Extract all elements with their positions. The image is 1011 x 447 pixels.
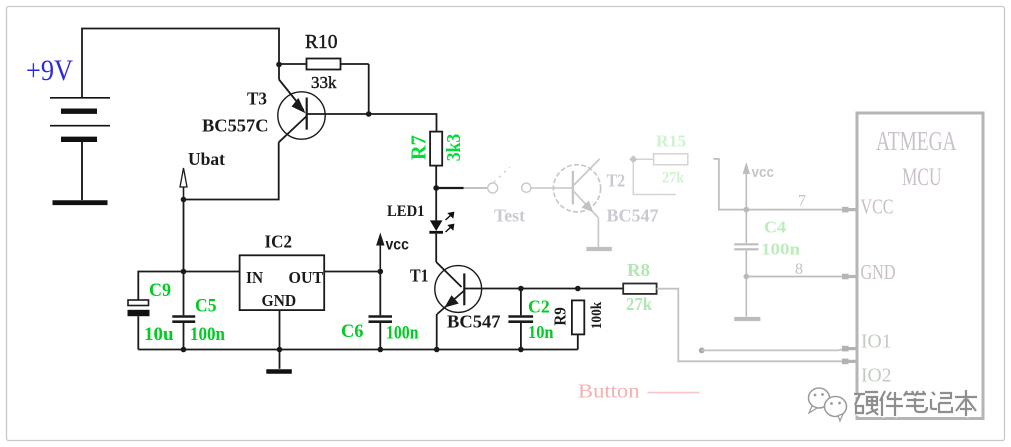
svg-text:T1: T1 xyxy=(410,266,429,286)
resistor R8 27k xyxy=(623,284,656,294)
node R9 top xyxy=(575,286,581,292)
svg-text:BC547: BC547 xyxy=(447,312,501,332)
svg-text:IO2: IO2 xyxy=(861,366,892,387)
pin arrow GND xyxy=(842,274,857,280)
LED1 light arrows xyxy=(446,213,454,233)
node Ubat junction xyxy=(181,197,187,203)
wire IC2 GND stem xyxy=(279,310,281,369)
svg-text:VCC: VCC xyxy=(861,195,894,219)
node C2 top xyxy=(518,286,524,292)
LED LED1 xyxy=(429,188,443,262)
svg-text:Button: Button xyxy=(578,381,640,403)
node C5 gnd xyxy=(181,347,187,353)
node: +9V / R10 junction xyxy=(276,62,282,68)
svg-text:BC557C: BC557C xyxy=(202,116,269,136)
wire IO1 stub (faded) xyxy=(699,348,846,354)
capacitor C4 100n (faded) xyxy=(734,210,758,317)
T2 emitter arrow xyxy=(582,201,594,213)
switch S Test (faded) xyxy=(488,167,531,193)
svg-text:Test: Test xyxy=(494,206,525,226)
watermark text 硬件笔记本 (drawn strokes) xyxy=(856,392,979,418)
svg-text:33k: 33k xyxy=(311,73,337,92)
watermark logo bubbles xyxy=(809,388,847,421)
resistor R9 100k xyxy=(572,300,584,349)
svg-text:7: 7 xyxy=(798,193,806,210)
capacitor C9 10u (electrolytic) xyxy=(128,300,150,350)
svg-text:10u: 10u xyxy=(144,324,174,345)
svg-text:Ubat: Ubat xyxy=(188,149,225,169)
battery B1 +9V xyxy=(50,98,110,203)
svg-text:C4: C4 xyxy=(764,218,786,237)
svg-text:27k: 27k xyxy=(662,170,685,187)
IC MCU box ATMEGA xyxy=(857,113,983,419)
svg-text:R15: R15 xyxy=(656,132,686,151)
wire IN rail xyxy=(138,272,239,301)
pin arrow IO1 xyxy=(842,346,857,352)
svg-text:+9V: +9V xyxy=(26,54,73,87)
wire T1 base line xyxy=(464,288,623,290)
svg-text:R8: R8 xyxy=(627,260,650,280)
svg-text:3k3: 3k3 xyxy=(443,134,465,162)
wire ground rail bottom xyxy=(138,349,578,351)
svg-text:MCU: MCU xyxy=(902,164,942,191)
pin arrow IO2 xyxy=(842,359,857,365)
node T1 emitter gnd xyxy=(434,347,440,353)
svg-text:GND: GND xyxy=(262,291,297,310)
power vcc arrow (MCU side, faded) xyxy=(743,162,750,210)
svg-text:8: 8 xyxy=(795,261,803,278)
node vcc/C4 top xyxy=(744,207,750,213)
T3 emitter arrow xyxy=(292,98,306,113)
IC U: IC2 regulator box xyxy=(240,255,325,310)
svg-text:27k: 27k xyxy=(626,294,652,314)
wire T3 base line to R7 xyxy=(307,114,437,132)
ground (IC2) xyxy=(266,369,292,374)
node R10/base junction xyxy=(366,111,372,117)
svg-text:IN: IN xyxy=(246,268,263,287)
svg-text:vcc: vcc xyxy=(386,237,409,254)
node C6 gnd xyxy=(378,347,384,353)
svg-text:100n: 100n xyxy=(761,240,800,259)
svg-text:100n: 100n xyxy=(386,323,419,344)
wire GND to MCU pin 8 xyxy=(746,276,846,278)
svg-text:ATMEGA: ATMEGA xyxy=(876,126,957,156)
node IC2 gnd xyxy=(277,347,283,353)
wire switch to T2 base (faded) xyxy=(531,187,553,189)
svg-text:R10: R10 xyxy=(305,32,338,53)
T1 emitter arrow xyxy=(445,295,459,307)
wire top rail from battery to T3 emitter branch xyxy=(82,29,279,98)
svg-text:T2: T2 xyxy=(607,171,626,191)
svg-text:IO1: IO1 xyxy=(861,332,892,353)
ground (T2) xyxy=(586,247,612,251)
wire to Test switch (black part) xyxy=(436,187,464,189)
wire to Test switch (faded part) xyxy=(464,187,487,189)
svg-text:LED1: LED1 xyxy=(387,203,425,220)
resistor R15 27k (faded) xyxy=(629,154,688,195)
pink dash xyxy=(648,392,700,394)
svg-text:OUT: OUT xyxy=(289,268,324,287)
transistor T1 BC547 (NPN) xyxy=(435,262,482,350)
svg-text:100k: 100k xyxy=(589,301,605,329)
svg-text:IC2: IC2 xyxy=(265,232,293,252)
svg-text:BC547: BC547 xyxy=(607,206,659,226)
capacitor C6 100n xyxy=(369,272,393,350)
transistor T3 BC557C (PNP) xyxy=(278,65,325,143)
svg-text:C9: C9 xyxy=(149,280,171,301)
resistor R7 3k3 xyxy=(430,132,442,188)
svg-text:R9: R9 xyxy=(551,307,570,326)
power vcc arrow (C6 node) xyxy=(376,233,384,272)
svg-text:100n: 100n xyxy=(190,324,225,345)
net label Ubat arrow xyxy=(180,168,187,200)
resistor R10 33k xyxy=(279,59,369,115)
svg-text:vcc: vcc xyxy=(752,164,775,181)
wire Ubat down to IN rail xyxy=(183,200,185,272)
svg-text:R7: R7 xyxy=(407,135,431,160)
node R7 / LED / switch junction xyxy=(433,185,439,191)
svg-text:T3: T3 xyxy=(247,89,267,109)
capacitor C5 100n xyxy=(172,272,195,350)
svg-text:GND: GND xyxy=(861,260,896,284)
wire OUT rail xyxy=(324,271,380,273)
node OUT / vcc / C6 junction xyxy=(378,269,384,275)
ground (C4) xyxy=(734,317,760,321)
pin arrow VCC xyxy=(842,207,857,213)
transistor T2 BC547 (faded) xyxy=(553,159,600,247)
capacitor C2 10n xyxy=(508,289,533,350)
wire T3 collector to Ubat node xyxy=(184,142,279,199)
svg-text:C2: C2 xyxy=(528,297,550,317)
wire VCC feed to MCU pin 7 xyxy=(714,159,847,210)
wire R8 to MCU IO2 (faded) xyxy=(657,289,844,362)
node C2 gnd xyxy=(518,347,524,353)
svg-text:C6: C6 xyxy=(341,321,364,342)
svg-text:C5: C5 xyxy=(195,296,217,317)
node C4 / GND pin junction xyxy=(744,274,750,280)
node IN rail junction xyxy=(181,269,187,275)
